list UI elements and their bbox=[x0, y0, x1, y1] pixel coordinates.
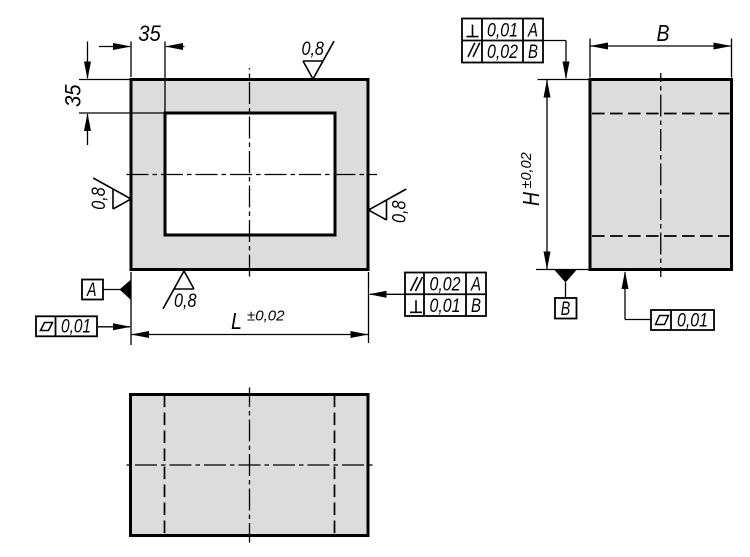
svg-text:A: A bbox=[470, 274, 481, 295]
svg-text:0,01: 0,01 bbox=[61, 317, 91, 338]
svg-text:0,01: 0,01 bbox=[677, 311, 708, 332]
svg-text:0,8: 0,8 bbox=[390, 200, 411, 223]
svg-text:0,01: 0,01 bbox=[430, 296, 461, 317]
svg-text:35: 35 bbox=[138, 21, 161, 46]
svg-text:0,01: 0,01 bbox=[487, 20, 518, 41]
svg-text:B: B bbox=[561, 299, 571, 320]
svg-text:0,8: 0,8 bbox=[301, 39, 324, 60]
svg-text:B: B bbox=[657, 20, 670, 46]
svg-text:0,02: 0,02 bbox=[430, 274, 461, 295]
svg-text:L: L bbox=[231, 308, 242, 334]
svg-text:A: A bbox=[527, 21, 538, 42]
svg-text:A: A bbox=[86, 280, 96, 301]
svg-text:B: B bbox=[471, 296, 481, 317]
svg-text:±0,02: ±0,02 bbox=[247, 308, 285, 325]
svg-text:±0,02: ±0,02 bbox=[519, 152, 535, 188]
svg-text:H: H bbox=[518, 192, 544, 206]
svg-text:0,8: 0,8 bbox=[174, 291, 197, 312]
svg-text:0,02: 0,02 bbox=[487, 42, 518, 63]
svg-text:0,8: 0,8 bbox=[89, 187, 110, 210]
svg-text:B: B bbox=[528, 42, 538, 63]
svg-text:35: 35 bbox=[61, 84, 86, 107]
